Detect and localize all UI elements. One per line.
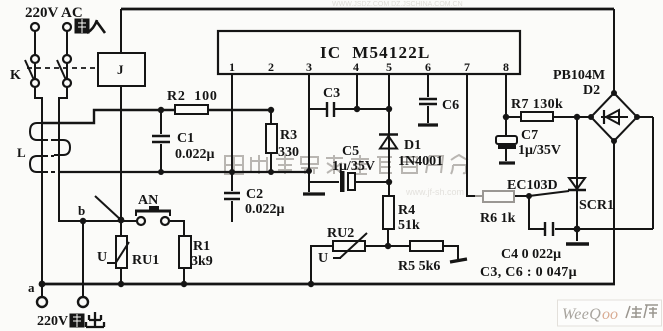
wire left AC line to node a <box>35 87 42 284</box>
wire lower bus from L to pin3 <box>60 171 309 173</box>
svg-text:C6: C6 <box>442 98 459 113</box>
svg-text:51k: 51k <box>398 218 420 233</box>
label pin numbers <box>229 60 509 74</box>
wire RU2 branch left leg <box>311 246 333 284</box>
svg-text:330: 330 <box>278 145 299 160</box>
wire R6 to gate node <box>514 195 529 197</box>
resistor R6 (faded by watermark) <box>475 191 514 202</box>
svg-text:R1: R1 <box>193 239 210 254</box>
watermark company text band <box>225 155 468 174</box>
svg-text:www.jf-sh.com: www.jf-sh.com <box>405 187 464 197</box>
resistor R7 <box>521 112 553 121</box>
wire pin7 down to R6 <box>467 74 475 196</box>
wire switch K blade right <box>57 60 66 80</box>
label input chinese arrow <box>75 19 105 33</box>
svg-text:U: U <box>97 250 107 265</box>
wire RU2 to R4 node to R5 <box>365 245 410 247</box>
wire C5 row <box>309 181 389 183</box>
wire C7 leads <box>505 117 507 161</box>
pushbutton AN <box>135 206 171 225</box>
svg-text:R6 1k: R6 1k <box>480 211 516 226</box>
svg-text:2: 2 <box>268 60 274 74</box>
wire SCR anode drop <box>576 117 578 241</box>
arrow into node at RU1 junction <box>95 196 121 220</box>
wire C2 leads <box>231 171 233 222</box>
wire right AC line upper <box>66 31 68 79</box>
svg-text:C1: C1 <box>177 131 194 146</box>
svg-text:SCR1: SCR1 <box>579 198 614 213</box>
resistor R5 <box>410 241 443 251</box>
svg-text:3: 3 <box>306 60 312 74</box>
wire pin3 line down to ground <box>308 74 310 192</box>
wire R5 right to ground <box>443 246 458 259</box>
bridge rectifier D2 PB104M <box>591 93 637 141</box>
wire cathode node to right rail <box>577 228 653 230</box>
svg-text:C4 0 022μ: C4 0 022μ <box>501 247 561 262</box>
wire R3 leads <box>270 110 272 171</box>
svg-text:7: 7 <box>464 60 470 74</box>
wire b node down to output terminal <box>82 221 84 297</box>
svg-text:J: J <box>117 62 124 77</box>
svg-text:220V: 220V <box>37 314 68 329</box>
svg-text:K: K <box>10 68 21 83</box>
svg-text:220V AC: 220V AC <box>25 5 83 21</box>
inductor L winding bump middle <box>54 140 70 155</box>
label output chinese <box>70 312 104 327</box>
wire right rail <box>637 117 653 229</box>
svg-text:R7 130k: R7 130k <box>511 97 563 112</box>
svg-text:C5: C5 <box>342 144 359 159</box>
terminal circles AC input <box>31 23 71 87</box>
wire top rail drop to bridge <box>613 9 615 94</box>
svg-text:RU2: RU2 <box>327 226 354 241</box>
svg-text:b: b <box>78 203 85 218</box>
wire top rail <box>121 8 614 11</box>
wire C3 row pin3 to pin5 <box>309 108 389 110</box>
svg-text:L: L <box>17 145 26 160</box>
capacitor C5 electrolytic <box>340 171 355 192</box>
capacitor C6 <box>419 99 437 104</box>
svg-text:IC M54122L: IC M54122L <box>320 43 430 62</box>
wire pin8 stub <box>505 74 507 117</box>
capacitor C7 electrolytic <box>496 136 517 149</box>
svg-text:1: 1 <box>229 60 235 74</box>
svg-text:1N4001: 1N4001 <box>398 154 443 169</box>
svg-text:C3, C6 : 0 047μ: C3, C6 : 0 047μ <box>480 265 577 280</box>
watermark faint url top <box>332 1 463 8</box>
svg-text:R3: R3 <box>280 128 297 143</box>
svg-text:WWW.JSDZ.COM DZ.JSCHINA.COM.CN: WWW.JSDZ.COM DZ.JSCHINA.COM.CN <box>332 1 463 8</box>
svg-text:PB104M: PB104M <box>553 68 605 83</box>
wire R7 row pin8 to bridge <box>506 116 591 118</box>
resistor R4 <box>383 196 394 229</box>
svg-text:0.022μ: 0.022μ <box>175 147 215 162</box>
wire C4 branch <box>529 196 577 229</box>
wire RU1 leads <box>120 221 122 284</box>
wire bridge bottom to bottom rail <box>613 141 615 284</box>
ground C6 bar <box>418 123 438 126</box>
wire SCR gate lead <box>529 191 569 196</box>
resistor R1 <box>179 236 191 268</box>
wire J top lead <box>120 9 122 53</box>
svg-text:WeeQ: WeeQ <box>562 306 601 323</box>
diode D1 1N4001 <box>379 135 398 149</box>
ground C7 bar <box>499 161 515 164</box>
svg-text:D1: D1 <box>404 138 421 153</box>
svg-text:R4: R4 <box>398 203 415 218</box>
watermark WeeQoo box <box>558 300 662 326</box>
wire pin5 through D1 to R4 <box>388 74 390 196</box>
svg-text:R5 5k6: R5 5k6 <box>398 259 440 274</box>
inductor L dashed core passes <box>44 140 59 172</box>
ground R5 bar <box>450 259 467 262</box>
svg-text:oo: oo <box>602 306 618 323</box>
svg-text:C3: C3 <box>323 86 340 101</box>
varistor RU2 <box>333 241 365 251</box>
svg-text:1μ/35V: 1μ/35V <box>518 143 561 158</box>
wire right AC line to node b <box>59 87 137 221</box>
svg-text:C7: C7 <box>521 128 538 143</box>
wire upper bus from L to pin2 <box>43 110 271 123</box>
capacitor C1 <box>152 136 170 142</box>
resistor R3 <box>266 124 277 153</box>
wire pin1 line down to lower bus <box>231 74 233 171</box>
capacitor C4 <box>545 222 553 236</box>
varistor RU1 <box>116 236 127 268</box>
terminal circles output <box>37 297 88 307</box>
svg-text:8: 8 <box>503 60 509 74</box>
svg-text:4: 4 <box>353 60 359 74</box>
wire R1 to bottom rail <box>183 268 185 284</box>
inductor L winding bump upper <box>30 123 44 140</box>
capacitor C2 <box>224 193 240 199</box>
wire a terminal stub <box>41 284 43 297</box>
svg-text:RU1: RU1 <box>132 253 159 268</box>
svg-text:U: U <box>318 251 328 266</box>
svg-text:EC103D: EC103D <box>507 178 558 193</box>
svg-text:0.022μ: 0.022μ <box>245 202 285 217</box>
wire R4 bottom lead <box>387 229 389 246</box>
wire J bottom lead down to b bus <box>120 86 122 219</box>
svg-text:3k9: 3k9 <box>191 254 213 269</box>
wire bottom rail <box>42 283 615 286</box>
relay coil J <box>98 53 145 86</box>
svg-text:1μ/35V: 1μ/35V <box>332 159 375 174</box>
resistor R2 <box>175 105 208 114</box>
ground pin3 bar <box>303 192 325 195</box>
wire pin6 stub to C6 <box>427 74 429 123</box>
svg-text:D2: D2 <box>583 83 600 98</box>
wire pin4 stub <box>356 74 358 109</box>
svg-text:C2: C2 <box>246 187 263 202</box>
wire left AC line upper <box>34 31 36 79</box>
svg-text:6: 6 <box>425 60 431 74</box>
IC U1 M54122L <box>218 31 520 74</box>
inductor L winding bump lower <box>30 156 44 172</box>
svg-text:a: a <box>28 280 35 295</box>
ground SCR bar <box>566 242 589 245</box>
thyristor SCR1 EC103D <box>568 178 586 190</box>
svg-text:AN: AN <box>138 193 158 208</box>
capacitor C3 <box>327 102 334 117</box>
wire switch K linkage dashed <box>27 67 97 69</box>
wire AN to R1 <box>170 221 184 236</box>
watermark faint url middle <box>311 30 464 197</box>
wire switch K blade left <box>25 60 34 80</box>
wire C1 leads <box>160 110 162 171</box>
svg-text:R2 100: R2 100 <box>167 89 218 104</box>
svg-text:5: 5 <box>386 60 392 74</box>
